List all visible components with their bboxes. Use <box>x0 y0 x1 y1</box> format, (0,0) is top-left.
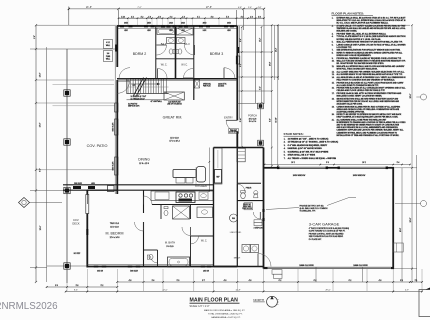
open to below box with X <box>164 92 184 106</box>
grid bubble right lower <box>395 201 427 207</box>
svg-text:17'-0 x 18'-4: 17'-0 x 18'-4 <box>169 141 179 143</box>
mud bench rect <box>244 203 253 210</box>
svg-text:2'-1: 2'-1 <box>415 280 418 282</box>
svg-text:13'-0 CLG: 13'-0 CLG <box>170 138 179 140</box>
bedroom block north exterior wall <box>117 25 237 27</box>
svg-text:TYPICAL PLATE HEIGHT IS 9'-1 1: TYPICAL PLATE HEIGHT IS 9'-1 1/8 IN. (SE… <box>337 35 407 38</box>
svg-text:6'-2: 6'-2 <box>314 280 317 282</box>
bedroom block south wall <box>117 78 237 80</box>
mbr/hall wall <box>143 190 145 213</box>
svg-text:5030 SLDR: 5030 SLDR <box>130 270 139 272</box>
svg-text:3'-7: 3'-7 <box>202 280 205 282</box>
svg-text:16050 WINDOW: 16050 WINDOW <box>293 175 306 177</box>
garage top dimension row <box>264 162 411 165</box>
svg-text:2'-4: 2'-4 <box>182 16 185 18</box>
svg-text:4'-3: 4'-3 <box>224 280 227 282</box>
mud bench note <box>242 204 252 210</box>
bottom dim row 2 <box>65 290 423 293</box>
svg-text:LOCATIONS TYP.: LOCATIONS TYP. <box>337 46 353 49</box>
mid dim horizontal connectors <box>239 24 279 167</box>
svg-text:INSULATION TYP. U.N.O. ALL INT: INSULATION TYP. U.N.O. ALL INTERIOR WALL… <box>337 19 406 22</box>
svg-text:PWDR: PWDR <box>246 188 252 190</box>
svg-text:6'-2: 6'-2 <box>349 280 352 282</box>
svg-text:4" THICK CONCRETE FLOOR SLAB (: 4" THICK CONCRETE FLOOR SLAB (3500 PSI M… <box>309 227 350 230</box>
svg-text:4'-8": 4'-8" <box>258 7 262 9</box>
m.bath toilet upper <box>164 207 168 216</box>
svg-text:29'-0": 29'-0" <box>325 290 330 292</box>
svg-text:6'-8" MIN. HEADROOM REQUIRED,: 6'-8" MIN. HEADROOM REQUIRED, VERIFY <box>288 144 328 147</box>
floor plan notes body <box>332 17 407 137</box>
top dimension line row 2 (subdivisions) <box>118 16 265 25</box>
kitchen island <box>173 167 206 184</box>
svg-text:16 RISERS @ 7 3/4" - (SEE % TO: 16 RISERS @ 7 3/4" - (SEE % TO CHECK) <box>288 137 329 140</box>
svg-text:4030: 4030 <box>91 183 95 185</box>
svg-text:28'-6": 28'-6" <box>410 93 412 98</box>
svg-text:M. BEDRM: M. BEDRM <box>106 232 124 236</box>
svg-text:AND IN ACCORDANCE W/ ALL LOCAL: AND IN ACCORDANCE W/ ALL LOCAL AMENDMENT… <box>337 126 399 129</box>
svg-text:TRAY CLG: TRAY CLG <box>110 222 120 225</box>
garage label block <box>309 222 350 242</box>
svg-text:16'-2: 16'-2 <box>291 162 295 164</box>
svg-text:5'-10": 5'-10" <box>240 117 242 122</box>
chase with X right of stairs <box>195 80 200 88</box>
m.bath shower <box>173 206 190 219</box>
mech exterior door arc <box>258 254 271 267</box>
master tub <box>168 257 190 267</box>
svg-text:3050: 3050 <box>124 23 128 25</box>
svg-text:TEMPERED GLASS SHALL BE LABELE: TEMPERED GLASS SHALL BE LABELED AND INST… <box>337 27 407 30</box>
svg-text:IN. O.C. U.N.O. SEE PLAN FOR 2: IN. O.C. U.N.O. SEE PLAN FOR 2x6 PLUMBIN… <box>337 22 389 25</box>
svg-text:ADJACENT HALLS PER CODE.: ADJACENT HALLS PER CODE. <box>337 102 363 105</box>
master west slider <box>86 195 89 214</box>
svg-text:LARGE CONSOLE UNIT PLATING 1 F: LARGE CONSOLE UNIT PLATING 1 FLUSH TO FA… <box>337 43 407 46</box>
toilet room <box>147 254 157 263</box>
svg-text:22'-0": 22'-0" <box>162 290 167 292</box>
svg-text:INSULATED COVER, VERIFY LOCATI: INSULATED COVER, VERIFY LOCATION W/ OWNE… <box>337 95 383 98</box>
svg-text:W.I.C.: W.I.C. <box>181 64 188 67</box>
svg-text:2'-6: 2'-6 <box>250 16 253 18</box>
porch edge lines <box>237 103 263 148</box>
svg-text:PROVIDE CONTROL JOINTS AS REQU: PROVIDE CONTROL JOINTS AS REQUIRED <box>309 232 345 235</box>
interior wall BA3/BDRM3 <box>193 26 195 79</box>
svg-text:DRYER TO BE VENTED TO EXTERIOR: DRYER TO BE VENTED TO EXTERIOR W/ SMOOTH… <box>337 113 403 116</box>
svg-text:5'-8: 5'-8 <box>326 162 329 164</box>
svg-text:2020: 2020 <box>169 23 173 25</box>
svg-text:LNDY/MUD: LNDY/MUD <box>230 232 242 234</box>
north arrow <box>253 296 279 307</box>
svg-text:GREAT RM.: GREAT RM. <box>163 116 183 120</box>
coat closet by entry <box>237 148 245 162</box>
kitchen vertical dim line <box>209 148 211 193</box>
svg-text:SEAL ALL PENETRATIONS THROUGH: SEAL ALL PENETRATIONS THROUGH TOP AND BO… <box>337 41 403 44</box>
svg-text:REFER TO WINDOW SCHEDULE AND M: REFER TO WINDOW SCHEDULE AND MFR. EGRESS… <box>337 52 404 55</box>
entry door arc <box>226 120 237 131</box>
svg-text:BUILDING AND CODES.: BUILDING AND CODES. <box>337 30 358 33</box>
left dimension vertical line <box>30 24 67 283</box>
svg-text:SLOPE TOWARD O.H. DOORS @ 1/8: SLOPE TOWARD O.H. DOORS @ 1/8" PER FT. <box>309 230 346 233</box>
svg-text:8'-6": 8'-6" <box>74 290 78 292</box>
svg-text:6050 SLDR: 6050 SLDR <box>113 122 115 132</box>
svg-text:CABINETRY SUPPLIER AND LAYOUTS: CABINETRY SUPPLIER AND LAYOUTS PER OWNER… <box>337 129 405 132</box>
svg-text:WITH FULL THICK SOUND BATT INS: WITH FULL THICK SOUND BATT INSULATION. <box>337 68 379 71</box>
svg-text:DRAFT DAMPER, 35'-0 MAX EQUIVA: DRAFT DAMPER, 35'-0 MAX EQUIVALENT LENGT… <box>337 116 399 119</box>
svg-text:19'-10": 19'-10" <box>276 117 278 123</box>
svg-text:DINING: DINING <box>138 158 150 162</box>
svg-text:PROVIDE ALL TEMPERED GLAZING A: PROVIDE ALL TEMPERED GLAZING AT REQUIRED… <box>337 57 402 60</box>
svg-text:CARBON MONOXIDE ALARMS PER IRC: CARBON MONOXIDE ALARMS PER IRC R315 OUTS… <box>337 105 401 108</box>
dim extension verticals top <box>119 10 279 104</box>
svg-text:15 TREADS @ 10": 15 TREADS @ 10" <box>131 97 146 100</box>
svg-text:2850 SH: 2850 SH <box>203 270 209 272</box>
svg-text:BA 2: BA 2 <box>161 42 167 46</box>
west wall window blobs + sliders <box>113 45 119 176</box>
svg-text:2'-0: 2'-0 <box>158 16 161 18</box>
svg-text:2020: 2020 <box>181 23 185 25</box>
stair notes body <box>284 137 339 160</box>
svg-text:3'-4: 3'-4 <box>397 162 400 164</box>
svg-text:8'-0 x 5'-4: 8'-0 x 5'-4 <box>249 121 256 123</box>
svg-text:INSTALLATION OF TRIM AND FINIS: INSTALLATION OF TRIM AND FINISHES AT ALL… <box>337 134 400 137</box>
stair labels with leaders <box>128 94 162 108</box>
svg-text:2'-0": 2'-0" <box>34 35 36 39</box>
svg-text:4'-8: 4'-8 <box>249 280 252 282</box>
svg-text:3'-6: 3'-6 <box>152 280 155 282</box>
svg-text:3068 ENT: 3068 ENT <box>230 130 237 132</box>
svg-text:FLOOR PLAN NOTES:: FLOOR PLAN NOTES: <box>332 11 365 15</box>
kitchen-east corridor walls <box>214 148 238 267</box>
interior wall BDRM2/BA2 <box>155 26 157 79</box>
svg-text:4'-8: 4'-8 <box>129 280 132 282</box>
svg-text:SEE EXTERIOR ELEVATIONS FOR SP: SEE EXTERIOR ELEVATIONS FOR SPECIALTY WI… <box>337 49 401 52</box>
svg-text:4x10 HDR FLUSH: 4x10 HDR FLUSH <box>168 102 180 104</box>
master north wall windows <box>73 183 114 192</box>
kitchen sink right <box>199 192 208 200</box>
svg-text:4'-0: 4'-0 <box>241 16 244 18</box>
svg-text:W.I.C.: W.I.C. <box>161 64 168 67</box>
BA2 tub <box>157 28 175 35</box>
svg-text:PROVIDE SOLID BLOCKING AT ALL: PROVIDE SOLID BLOCKING AT ALL POINT LOAD… <box>337 81 405 84</box>
svg-text:8'-0": 8'-0" <box>270 118 272 122</box>
svg-text:5030 SLDR: 5030 SLDR <box>74 183 83 185</box>
svg-text:27'-6": 27'-6" <box>206 6 212 9</box>
grid bubble right upper <box>416 94 426 100</box>
east wall windows <box>236 47 240 64</box>
garage east wall <box>392 168 394 269</box>
master west wall <box>86 190 88 194</box>
svg-text:16080 O.H. DOOR: 16080 O.H. DOOR <box>299 265 314 267</box>
bottom extension verticals <box>67 269 422 291</box>
right dim lines <box>394 24 417 283</box>
landing tiny notes <box>203 83 228 88</box>
svg-text:BENCH W/: BENCH W/ <box>243 204 251 206</box>
svg-text:3'-0: 3'-0 <box>400 280 403 282</box>
svg-text:4'-8": 4'-8" <box>238 7 242 9</box>
main floor plan title <box>190 298 246 320</box>
svg-text:ALL ANGLED WALLS ARE AT 45 DEG: ALL ANGLED WALLS ARE AT 45 DEGREES U.N.O… <box>337 76 407 79</box>
steps down to garage <box>254 220 263 230</box>
svg-text:4x4 POST W/: 4x4 POST W/ <box>128 104 138 106</box>
svg-text:IN REFERENCE TO FRAMING AND LO: IN REFERENCE TO FRAMING AND LOCATIONS OF… <box>337 121 407 124</box>
svg-text:PLMB: PLMB <box>106 56 110 58</box>
svg-text:4 1/2: 4 1/2 <box>106 42 110 44</box>
svg-text:5'-4": 5'-4" <box>259 86 261 90</box>
svg-text:NORTH: NORTH <box>253 298 264 302</box>
svg-text:3050 SH: 3050 SH <box>97 270 103 272</box>
house south wall (master) <box>87 266 237 268</box>
svg-text:3050: 3050 <box>227 23 231 25</box>
staircase treads <box>127 78 169 100</box>
section marker diamond <box>19 198 63 208</box>
svg-text:3 STEPS DN: 3 STEPS DN <box>254 227 263 229</box>
BA3 shower with X <box>177 28 194 35</box>
svg-text:M. BATH: M. BATH <box>165 241 175 245</box>
svg-text:13'-0": 13'-0" <box>40 122 42 127</box>
bath interior door arcs <box>144 196 191 236</box>
svg-text:6'-2: 6'-2 <box>279 280 282 282</box>
svg-text:1'-8: 1'-8 <box>148 16 151 18</box>
BA2 vanity <box>167 38 176 44</box>
bottom right legend box <box>419 287 430 316</box>
svg-text:DOOR (TYP): DOOR (TYP) <box>229 132 238 134</box>
svg-text:3'-2: 3'-2 <box>131 16 134 18</box>
BA2 toilet <box>169 49 175 54</box>
svg-text:3'-0: 3'-0 <box>258 16 261 18</box>
svg-text:SEE FOUNDATION PLAN FOR SLAB R: SEE FOUNDATION PLAN FOR SLAB REINF. <box>309 235 344 238</box>
svg-text:MAIN FLOOR LIVING AREA = 1846: MAIN FLOOR LIVING AREA = 1846 SQ. FT. <box>204 309 245 312</box>
garage right stoop <box>393 243 403 252</box>
plumbing wall between baths <box>175 26 177 79</box>
svg-text:ALL LOADS DOWN TO FOUNDATION B: ALL LOADS DOWN TO FOUNDATION BELOW TYP. <box>337 84 380 87</box>
svg-text:7'-2": 7'-2" <box>137 7 142 9</box>
powder room <box>237 183 261 199</box>
svg-text:ALL HARDWARE SHALL COME FROM T: ALL HARDWARE SHALL COME FROM THE DWELLIN… <box>337 119 388 122</box>
svg-text:11'-6 x 12'-0: 11'-6 x 12'-0 <box>139 163 149 165</box>
svg-text:COV. PATIO: COV. PATIO <box>87 144 108 148</box>
west exterior wall <box>116 26 118 67</box>
powder/laundry walls <box>214 148 264 269</box>
svg-text:PROVIDE 22x30 IN. MIN. ATTIC A: PROVIDE 22x30 IN. MIN. ATTIC ACCESS W/ W… <box>337 92 403 95</box>
mid vertical dim lines right of bedroom block <box>242 25 278 166</box>
svg-text:TO DWELLING, TYP.: TO DWELLING, TYP. <box>300 211 317 213</box>
svg-text:4'-8: 4'-8 <box>379 280 382 282</box>
svg-text:ALL TREADS + RISERS SHALL BE E: ALL TREADS + RISERS SHALL BE EQUAL + UNI… <box>288 157 337 160</box>
svg-text:@ ALL WALLS AND CLG. COMMON: @ ALL WALLS AND CLG. COMMON <box>300 207 329 210</box>
svg-text:21'-6": 21'-6" <box>86 6 92 9</box>
bedroom block east exterior wall <box>236 26 238 120</box>
svg-text:16080 O.H. DOOR: 16080 O.H. DOOR <box>353 265 368 267</box>
svg-text:BDRM 3: BDRM 3 <box>210 52 224 56</box>
svg-text:WALLS AT TUB AND SHOWER UNITS: WALLS AT TUB AND SHOWER UNITS TO RECEIVE… <box>337 60 407 63</box>
svg-text:2NRMLS2026: 2NRMLS2026 <box>0 301 58 312</box>
svg-text:2x6: 2x6 <box>107 53 110 55</box>
entry south wall to kitchen <box>214 147 238 149</box>
svg-text:4'-8: 4'-8 <box>211 16 214 18</box>
svg-text:STAIR SHALL BE 3'-6" WIDE: STAIR SHALL BE 3'-6" WIDE <box>288 154 316 157</box>
svg-text:CEILING AND FLOOR LEVELS PER I: CEILING AND FLOOR LEVELS PER IRC R302.11… <box>337 89 386 92</box>
svg-text:3'-8: 3'-8 <box>76 285 79 287</box>
svg-text:PROVIDE FIRE BLOCKING AT ALL C: PROVIDE FIRE BLOCKING AT ALL CONCEALED D… <box>337 87 407 90</box>
svg-text:W.I.C.: W.I.C. <box>201 241 208 243</box>
patio door arc (west wall) <box>117 81 129 93</box>
m.bath vanity <box>197 207 213 218</box>
BA3 toilet <box>176 49 182 54</box>
svg-text:12'-0 x 14'-8: 12'-0 x 14'-8 <box>110 237 120 239</box>
svg-text:3'-10: 3'-10 <box>121 16 125 18</box>
svg-text:DECK: DECK <box>72 222 79 226</box>
svg-text:ACCEPTABLE WHERE APPROVED.: ACCEPTABLE WHERE APPROVED. <box>337 110 366 113</box>
svg-text:HANDRAIL @ 34"-38" ABOVE NOSIN: HANDRAIL @ 34"-38" ABOVE NOSING <box>288 147 323 150</box>
svg-text:13'-2": 13'-2" <box>276 47 278 52</box>
svg-text:3050: 3050 <box>203 23 207 25</box>
covered patio edge lines <box>36 49 117 283</box>
svg-text:8'-0 PLATE HGT.: 8'-0 PLATE HGT. <box>309 238 322 241</box>
svg-text:6'-2": 6'-2" <box>240 63 242 67</box>
svg-text:4'-9": 4'-9" <box>405 290 409 292</box>
window label boxes left of west wall <box>104 40 113 62</box>
svg-text:BA 3: BA 3 <box>184 42 190 46</box>
svg-text:ENTRY: ENTRY <box>224 115 233 119</box>
garage entry door opening + arc <box>253 209 264 221</box>
svg-text:FIELD PRIOR TO CONSTRUCTION AN: FIELD PRIOR TO CONSTRUCTION AND ORDERING… <box>337 79 396 82</box>
svg-text:COV.: COV. <box>73 218 79 222</box>
svg-text:13'-0 CLG: 13'-0 CLG <box>110 227 119 229</box>
bottom dim row 1b (left) <box>46 285 118 288</box>
svg-text:AND TO BE VERIFIED W/ OWNER PR: AND TO BE VERIFIED W/ OWNER PRIOR TO STA… <box>337 124 400 127</box>
svg-text:GARAGE AREA = 1047 SQ. FT.: GARAGE AREA = 1047 SQ. FT. <box>211 316 241 319</box>
svg-text:PORCH: PORCH <box>248 115 257 118</box>
svg-text:STAIR NOTES:: STAIR NOTES: <box>284 132 304 136</box>
porch posts <box>258 103 264 146</box>
svg-text:5'-2: 5'-2 <box>101 285 104 287</box>
north wall window blobs <box>120 23 234 33</box>
top dimension line row 1 <box>68 6 265 25</box>
svg-text:2850: 2850 <box>147 23 151 25</box>
svg-text:SCALE: 1/4" = 1'-0": SCALE: 1/4" = 1'-0" <box>190 305 210 308</box>
kitchen counters south <box>151 191 213 201</box>
svg-text:2'-6": 2'-6" <box>248 7 252 9</box>
svg-text:ALL SHOWER HEADS TO BE PRESSUR: ALL SHOWER HEADS TO BE PRESSURE BALANCED… <box>337 73 403 76</box>
svg-text:MAIN FLOOR PLAN: MAIN FLOOR PLAN <box>190 298 239 304</box>
svg-text:14'-0": 14'-0" <box>40 72 42 77</box>
svg-text:19'-0": 19'-0" <box>40 225 42 230</box>
svg-text:INSULATE ALL INTERIOR WALLS AN: INSULATE ALL INTERIOR WALLS AND FLOORS A… <box>337 65 406 68</box>
master bath walls <box>144 205 214 267</box>
patio posts <box>64 90 70 269</box>
svg-text:SMOKE DETECTORS SHALL BE HARD: SMOKE DETECTORS SHALL BE HARD WIRED W/ B… <box>337 97 399 100</box>
svg-text:16050 WINDOW: 16050 WINDOW <box>353 175 366 177</box>
svg-text:AT SAFE CIRCLE = TYP. SAFETY G: AT SAFE CIRCLE = TYP. SAFETY GLAZING LOC… <box>337 25 407 28</box>
svg-text:PROVIDE TEMP. SILL SEAL AT ALL: PROVIDE TEMP. SILL SEAL AT ALL EXTERIOR … <box>337 32 387 35</box>
svg-text:3'-2: 3'-2 <box>141 16 144 18</box>
svg-text:TOTAL LIVING AREA = 2646 SQ. F: TOTAL LIVING AREA = 2646 SQ. FT. <box>208 312 243 315</box>
svg-text:20'-8": 20'-8" <box>410 217 412 222</box>
svg-text:3-CAR GARAGE: 3-CAR GARAGE <box>309 222 340 227</box>
svg-text:INTERCONNECTED PER IRC R314 AT: INTERCONNECTED PER IRC R314 AT ALL LEVEL… <box>337 100 400 103</box>
stair up arrow <box>131 83 160 87</box>
svg-text:BDRM 2: BDRM 2 <box>133 52 147 56</box>
entry door label box <box>228 129 238 134</box>
svg-text:16'-2: 16'-2 <box>362 162 366 164</box>
svg-text:NOTES) UNLESS NOTED 8'-1 1/8 I: NOTES) UNLESS NOTED 8'-1 1/8 IN. ON PLAN… <box>337 38 382 41</box>
svg-text:11'-2": 11'-2" <box>259 38 261 43</box>
svg-text:EGRESS AND U-VALUE REQUIREMENT: EGRESS AND U-VALUE REQUIREMENTS. <box>337 54 372 57</box>
svg-text:CABINETRY W/ FINAL MECH. AND P: CABINETRY W/ FINAL MECH. AND PLUMBING LO… <box>337 131 398 134</box>
svg-text:19'-8": 19'-8" <box>270 61 272 66</box>
svg-text:REF: REF <box>216 177 219 179</box>
svg-text:5'-5: 5'-5 <box>177 280 180 282</box>
garage south wall with OH doors <box>264 265 395 282</box>
svg-text:8'-4": 8'-4" <box>240 38 242 42</box>
svg-text:9'-0 CLG: 9'-0 CLG <box>166 246 174 248</box>
svg-text:BD. OR APPROVED TILE BACKER BO: BD. OR APPROVED TILE BACKER BOARD PER SP… <box>337 62 385 65</box>
WIC door arcs <box>158 69 168 79</box>
half wall below stairs <box>193 79 195 100</box>
bath door arcs <box>157 45 167 55</box>
water heater <box>230 214 238 222</box>
kitchen range <box>176 192 195 203</box>
svg-text:5'-4: 5'-4 <box>226 16 229 18</box>
washer dryer <box>242 245 259 253</box>
WIC divider wall <box>156 58 194 60</box>
tall pantry/ref cabinet <box>214 148 222 184</box>
svg-text:GUARDRAIL @ 36" MIN. W/ 4" MAX: GUARDRAIL @ 36" MIN. W/ 4" MAX SPHERE <box>288 150 330 153</box>
svg-text:NO STEP: NO STEP <box>74 253 81 255</box>
svg-text:ALL CLOSET SHELVING PER OWNER: ALL CLOSET SHELVING PER OWNER / BUILDER … <box>337 70 406 73</box>
south wall windows <box>94 266 212 273</box>
garage north wall <box>264 167 395 178</box>
bedroom door arcs from hall <box>119 68 130 79</box>
svg-text:6050 SLDR: 6050 SLDR <box>113 161 115 171</box>
BA3 vanity <box>177 38 186 44</box>
svg-text:4'-1: 4'-1 <box>197 16 200 18</box>
exterior landing steps <box>272 270 282 279</box>
svg-text:10'-0": 10'-0" <box>400 227 402 232</box>
svg-text:EXTERIOR WALLS SHALL BE 2x6 WO: EXTERIOR WALLS SHALL BE 2x6 WOOD STUDS A… <box>337 17 407 20</box>
mbr door arc <box>135 222 144 231</box>
svg-text:14'-8": 14'-8" <box>235 290 240 292</box>
svg-text:AREAS AND ON EACH LEVEL OF DWE: AREAS AND ON EACH LEVEL OF DWELLING. COM… <box>337 108 400 111</box>
garage note + leaders <box>266 198 356 213</box>
svg-text:MECH: MECH <box>234 258 241 260</box>
top wall extension line across sheet <box>36 24 410 26</box>
master suite north wall <box>63 185 214 190</box>
bottom dim row 1 <box>116 280 423 283</box>
svg-text:15 TREADS @ 10" (1" NOSING) -: 15 TREADS @ 10" (1" NOSING) - (SEE % TO … <box>288 141 339 144</box>
svg-text:2'-4: 2'-4 <box>170 16 173 18</box>
svg-text:3'-0: 3'-0 <box>55 285 58 287</box>
